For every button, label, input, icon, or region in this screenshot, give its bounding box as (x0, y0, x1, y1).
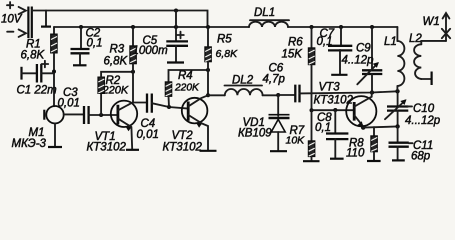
transistor VT2 КТ3102 (163, 95, 209, 153)
node R1/C1 (52, 70, 56, 74)
resistor R7 10K (286, 110, 315, 161)
wire emitter line (363, 126, 397, 127)
inductor L2 (409, 33, 446, 85)
resistor R3 6,8K (104, 27, 137, 72)
node bus/R6 (310, 25, 314, 29)
wire VT3 base line (312, 109, 355, 111)
resistor R8 110 (346, 127, 377, 161)
svg-text:0,01: 0,01 (137, 129, 159, 141)
svg-text:КВ109: КВ109 (238, 128, 272, 140)
node bus/R3 (131, 25, 135, 29)
resistor R5 6,8K (205, 27, 238, 95)
resistor R6 15K (282, 27, 315, 110)
svg-text:6,8K: 6,8K (216, 48, 239, 60)
capacitor C9 4..12p (trimmer) (342, 27, 383, 93)
svg-text:КТ3102: КТ3102 (314, 95, 354, 107)
node R6/R7 (VT3 base) (310, 108, 314, 112)
svg-text:VT3: VT3 (319, 82, 341, 94)
svg-text:220K: 220K (174, 83, 200, 94)
svg-text:L1: L1 (384, 36, 397, 48)
wire +V bus (54, 26, 397, 28)
capacitor C4 0,01 (133, 94, 188, 142)
svg-text:15K: 15K (282, 49, 304, 61)
node base/C8 (333, 108, 337, 112)
ground (M1) (48, 146, 62, 148)
svg-text:220K: 220K (102, 85, 129, 97)
svg-text:0,1: 0,1 (315, 122, 331, 134)
svg-text:0,1: 0,1 (317, 36, 333, 48)
svg-text:6,8K: 6,8K (104, 56, 129, 68)
svg-text:КТ3102: КТ3102 (87, 142, 127, 154)
resistor R1 (21, 27, 58, 106)
capacitor C5 1000m (133, 11, 189, 63)
node rail/C5 (174, 9, 178, 13)
capacitor C8 0,1 (315, 110, 348, 158)
wire tank line (C6 to VT3 collector, L1, C10) (300, 91, 398, 93)
ground (C11) (392, 159, 405, 161)
inductor DL1 (249, 7, 289, 27)
inductor L1 (384, 27, 404, 91)
node R2/R3/VT1 collector (131, 70, 135, 74)
capacitor C11 68p (389, 126, 434, 162)
svg-text:МКЭ-3: МКЭ-3 (12, 138, 47, 150)
capacitor C10 4...12p (trimmer) (385, 91, 441, 127)
varicap VD1 КВ109 (238, 95, 290, 151)
svg-text:КТ3102: КТ3102 (163, 142, 203, 154)
svg-text:L2: L2 (409, 33, 422, 45)
ground (C7) (331, 74, 347, 76)
wire rail stub with tick (45, 11, 47, 27)
capacitor C7 0,1 (317, 27, 353, 75)
microphone M1 МКЭ-3 (12, 106, 84, 150)
ground (VD1) (270, 150, 287, 152)
inductor DL2 (208, 75, 278, 96)
svg-text:C1 22m: C1 22m (17, 85, 58, 97)
node DL2/VD1/C6 (276, 93, 280, 97)
node tank/L1/C10 (395, 89, 399, 93)
capacitor C3 0,01 (58, 87, 118, 124)
node bus/C2 (79, 25, 83, 29)
svg-text:0,1: 0,1 (87, 38, 103, 50)
svg-text:68p: 68p (411, 151, 431, 163)
svg-text:10V: 10V (1, 14, 23, 26)
node C4/R4 (VT2 base) (167, 105, 171, 109)
resistor R4 220K (165, 70, 208, 107)
svg-text:10K: 10K (286, 135, 306, 147)
svg-text:110: 110 (346, 148, 365, 160)
svg-text:DL2: DL2 (232, 75, 254, 87)
ground (VT2 emitter) (200, 150, 217, 152)
svg-text:4..12p: 4..12p (342, 55, 375, 67)
node bus/C9 (370, 25, 374, 29)
ground (R7) (303, 160, 320, 162)
connector X1 (power plug) (7, 2, 32, 38)
svg-text:C10: C10 (413, 103, 435, 115)
ground (C2) (73, 64, 87, 66)
capacitor C1 22m (17, 61, 58, 97)
node R5/DL2 (VT2 collector) (206, 93, 210, 97)
svg-text:6,8K: 6,8K (21, 50, 46, 62)
svg-text:VT2: VT2 (172, 130, 194, 142)
svg-text:1000m: 1000m (133, 45, 169, 57)
node R5/R4 (206, 68, 210, 72)
node C3/R2 (VT1 base) (99, 113, 103, 117)
svg-text:4,7p: 4,7p (263, 74, 286, 86)
svg-text:4...12p: 4...12p (405, 115, 441, 127)
transistor VT3 КТ3102 (314, 82, 377, 128)
wire top rail +10V (32, 11, 208, 28)
svg-text:R3: R3 (110, 44, 125, 56)
ground (R8) (367, 160, 381, 162)
transistor VT1 КТ3102 (87, 72, 138, 154)
svg-text:R5: R5 (217, 34, 232, 46)
ground (C5) (167, 61, 184, 63)
node bus/C7 (339, 25, 343, 29)
svg-text:0,01: 0,01 (58, 98, 80, 110)
resistor R2 220K (98, 72, 133, 115)
node tank/VT3 collector (370, 90, 374, 94)
svg-text:W1: W1 (423, 16, 440, 28)
antenna W1 (423, 13, 451, 41)
ground (VT1 emitter) (126, 149, 139, 151)
svg-text:DL1: DL1 (254, 7, 275, 19)
ground (C8) (330, 158, 344, 160)
node C10/C11/emitter (395, 124, 399, 128)
svg-text:R4: R4 (178, 70, 193, 82)
capacitor C2 0,1 (71, 27, 103, 65)
node bus/C5 (174, 25, 178, 29)
svg-text:C9: C9 (356, 43, 371, 55)
node bus/R5 (206, 25, 210, 29)
node VT3 emitter/R8 line (361, 125, 365, 129)
capacitor C6 4,7p (263, 63, 300, 103)
svg-text:R6: R6 (288, 37, 303, 49)
